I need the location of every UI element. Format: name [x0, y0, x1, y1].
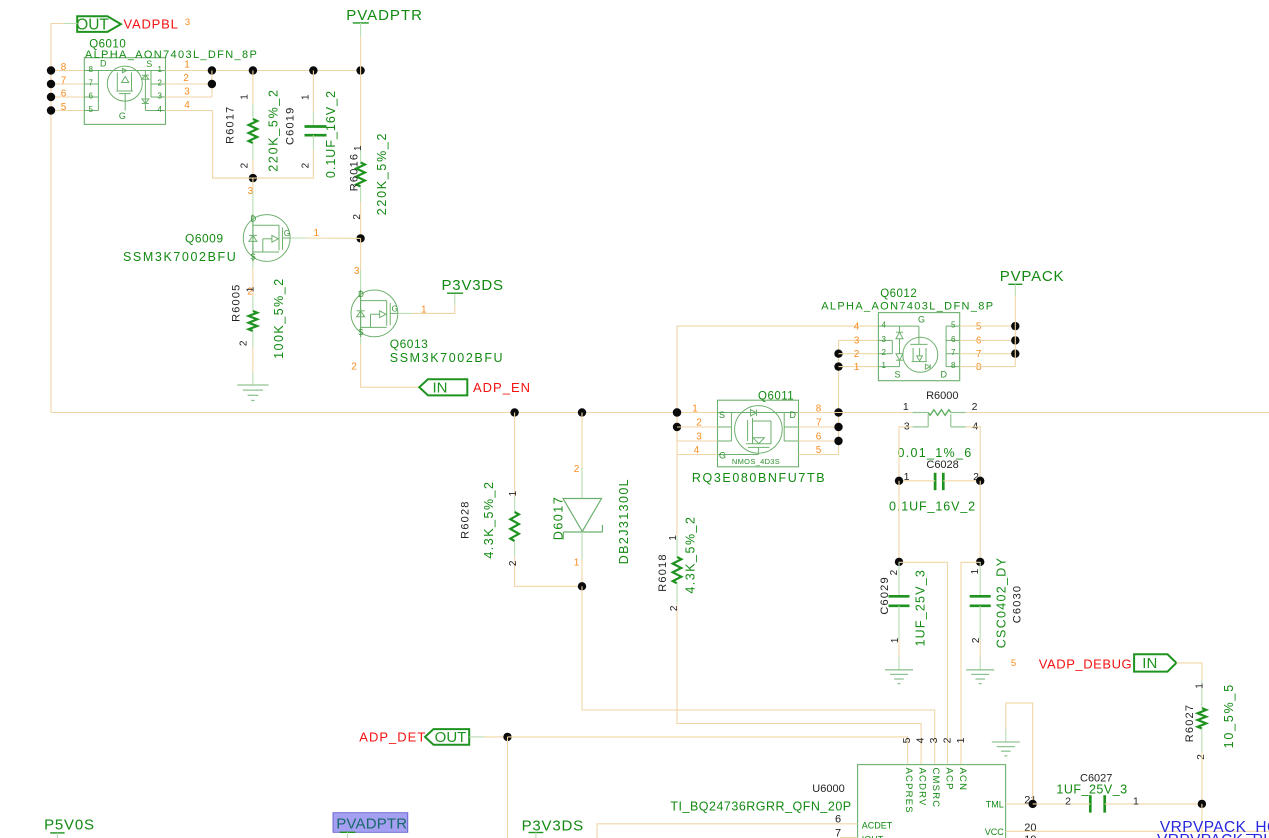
wire VCC	[1006, 830, 1269, 832]
pin 1 label D6017	[574, 557, 580, 568]
IC U6000 body	[858, 765, 1006, 838]
port IN ADP_EN	[419, 379, 467, 397]
svg-text:D: D	[941, 369, 948, 379]
svg-text:ACDRV: ACDRV	[916, 768, 927, 807]
svg-text:3: 3	[928, 737, 940, 743]
svg-text:1: 1	[854, 362, 860, 373]
wire Q6012 pin8	[960, 366, 1016, 368]
value 220K_5%_2 R6017	[267, 88, 281, 171]
wire Q6013 source to ADP_EN	[361, 337, 420, 387]
svg-text:6: 6	[951, 335, 956, 344]
capacitor C6027	[1090, 795, 1104, 812]
wire Q6010 pin7	[51, 83, 84, 85]
port IN VADP_DEBUG	[1134, 654, 1176, 672]
net VADP_DEBUG section number 5	[1011, 658, 1016, 669]
svg-text:8: 8	[976, 362, 982, 373]
svg-text:2: 2	[183, 73, 189, 84]
wire D6017 bottom	[581, 532, 583, 586]
svg-text:2: 2	[882, 348, 887, 357]
svg-text:1: 1	[882, 361, 887, 370]
svg-text:U6000: U6000	[812, 783, 844, 795]
svg-text:S: S	[719, 410, 725, 420]
resistor R6005	[249, 311, 258, 331]
part DB2J31300L D6017	[617, 478, 631, 564]
pin 4 ACDRV U6000	[914, 737, 927, 806]
pin labels C6028	[904, 471, 980, 483]
refdes R6017	[225, 105, 237, 143]
wire VADP_DEBUG to R6027	[1176, 663, 1202, 708]
svg-text:1: 1	[970, 568, 981, 574]
svg-text:4: 4	[158, 105, 163, 114]
value 220K_5%_2 R6016	[375, 132, 389, 215]
value 0.01_1%_6 R6000	[898, 446, 973, 460]
refdes R6027	[1184, 704, 1196, 742]
junction dot pin2	[208, 80, 216, 88]
wire Q6011 pin2	[677, 426, 718, 428]
transistor Q6013	[351, 290, 398, 337]
wire C6029 to ACP	[899, 562, 948, 764]
svg-text:2: 2	[352, 214, 363, 220]
svg-text:20: 20	[1024, 822, 1036, 834]
svg-text:2: 2	[669, 605, 680, 611]
refdes C6029	[879, 576, 891, 614]
svg-text:2: 2	[238, 340, 249, 346]
transistor Q6010	[84, 58, 165, 125]
svg-text:2: 2	[508, 560, 519, 566]
junction dots main rail	[510, 408, 681, 416]
junction dot R6016 bottom	[356, 234, 364, 242]
wire D6017 to CMSRC	[582, 586, 935, 764]
refdes R6000	[926, 390, 958, 402]
svg-text:Q6013: Q6013	[390, 337, 429, 351]
wire Q6010 pin5	[51, 110, 84, 112]
svg-text:3: 3	[184, 87, 190, 98]
ground near U6000	[992, 703, 1033, 804]
svg-text:7: 7	[89, 79, 94, 88]
svg-text:G: G	[918, 314, 925, 324]
pin 1 R6005	[246, 286, 257, 292]
svg-text:DB2J31300L: DB2J31300L	[617, 478, 631, 564]
svg-text:ADP_EN: ADP_EN	[473, 380, 531, 395]
pin 2 label Q6009 source	[247, 287, 253, 298]
refdes Q6010	[89, 38, 126, 50]
junction dots Q6010 left	[47, 66, 55, 114]
wire TML	[1006, 803, 1033, 805]
wire R6028 top	[514, 413, 516, 513]
svg-text:2: 2	[351, 361, 357, 372]
svg-text:IN: IN	[1142, 655, 1157, 672]
svg-text:R6018: R6018	[657, 553, 669, 591]
wire Q6012 pin4 column	[677, 326, 878, 536]
ground below R6005	[237, 373, 268, 401]
wire Q6010 pin6	[51, 96, 84, 98]
wire bus Q6012-Q6011	[838, 340, 840, 454]
refdes Q6009	[185, 232, 224, 246]
resistor R6028	[510, 512, 519, 541]
svg-text:IN: IN	[433, 380, 448, 397]
svg-text:7: 7	[61, 75, 67, 86]
wire main rail left	[51, 412, 718, 414]
wire C6019 bottom	[213, 135, 314, 178]
svg-text:1: 1	[353, 145, 364, 151]
junction dot C6029 top	[895, 558, 903, 566]
port OUT VADPBL	[76, 16, 121, 33]
power P5V0S	[44, 816, 95, 838]
svg-text:CSC0402_DY: CSC0402_DY	[995, 557, 1009, 649]
svg-text:1: 1	[184, 60, 190, 71]
svg-text:3: 3	[158, 92, 163, 101]
wire Q6011 pin4 gate	[677, 454, 718, 456]
svg-text:1: 1	[574, 557, 580, 568]
svg-text:G: G	[284, 229, 290, 238]
svg-text:1: 1	[240, 94, 251, 100]
pin 2 C6019	[300, 162, 311, 168]
svg-text:4: 4	[184, 100, 190, 111]
wire C6030 to ACN	[961, 562, 980, 764]
net VADPBL section number 3	[185, 17, 190, 28]
svg-text:G: G	[119, 111, 126, 121]
svg-text:4: 4	[972, 420, 978, 432]
power P3V3DS lower	[522, 817, 584, 838]
junction dots PVPACK bus	[1011, 322, 1019, 358]
refdes R6018	[657, 553, 669, 591]
svg-text:TI_BQ24736RGRR_QFN_20P: TI_BQ24736RGRR_QFN_20P	[670, 800, 851, 814]
pin labels Q6010 left	[61, 62, 67, 113]
wire D6017 top	[581, 413, 583, 499]
refdes Q6013	[390, 337, 429, 351]
svg-text:C6030: C6030	[1012, 585, 1024, 623]
wire R6018 top stub	[676, 536, 678, 557]
pin 2 R6017	[240, 162, 251, 168]
wire R6018 bottom to ACDRV	[677, 583, 921, 764]
pin 2 R6016	[352, 214, 363, 220]
resistor R6018	[673, 557, 682, 583]
svg-text:1UF_25V_3: 1UF_25V_3	[914, 569, 928, 647]
wire Q6011 pin3	[677, 440, 718, 442]
svg-text:2: 2	[941, 737, 953, 743]
ground below C6030	[966, 640, 994, 684]
refdes D6017	[552, 496, 566, 540]
part SSM3K7002BFU Q6009	[123, 250, 237, 264]
resistor R6000	[913, 410, 966, 427]
svg-text:5: 5	[901, 737, 913, 743]
junction dot ADP_DET	[503, 733, 511, 741]
svg-text:D: D	[358, 290, 364, 299]
diode D6017	[563, 499, 602, 540]
svg-text:ACN: ACN	[957, 768, 968, 792]
svg-text:IOUT: IOUT	[862, 834, 884, 838]
capacitor C6028	[935, 473, 943, 490]
svg-text:2: 2	[1065, 796, 1071, 808]
svg-text:3: 3	[904, 420, 910, 432]
pin labels Q6011 left	[692, 403, 702, 456]
wire C6027 to R6027	[1105, 803, 1202, 805]
pin 19 U6000	[1024, 834, 1036, 838]
wire Q6012 pin5	[960, 325, 1016, 327]
wire TML to C6027	[1033, 803, 1091, 805]
capacitor C6019	[305, 127, 327, 136]
svg-text:ACPRES: ACPRES	[903, 768, 914, 814]
wire Q6012 pin6	[960, 339, 1016, 341]
svg-text:P5V0S: P5V0S	[44, 816, 95, 833]
pin 1 label Q6013 gate	[421, 305, 427, 316]
svg-text:Q6012: Q6012	[880, 288, 917, 300]
svg-text:PVPACK: PVPACK	[1000, 268, 1065, 285]
net label ADP_EN	[473, 380, 531, 395]
pin 1 R6018	[668, 535, 679, 541]
pin 2 R6005	[238, 340, 249, 346]
pin 2 C6030	[971, 637, 982, 643]
value 1UF_25V_3 C6027	[1056, 782, 1127, 796]
svg-text:ALPHA_AON7403L_DFN_8P: ALPHA_AON7403L_DFN_8P	[85, 49, 258, 61]
net label ADP_DET	[359, 729, 426, 744]
wire Q6012 pin7	[960, 353, 1016, 355]
pin 6 ACDET U6000	[835, 813, 893, 830]
svg-text:7: 7	[976, 349, 982, 360]
junction dot C6030 top	[976, 558, 984, 566]
transistor Q6011	[718, 400, 799, 467]
svg-text:C6029: C6029	[879, 576, 891, 614]
svg-text:4: 4	[882, 321, 887, 330]
ground below C6029	[885, 640, 913, 684]
svg-text:CMSRC: CMSRC	[930, 768, 941, 809]
wire rail R6000 right	[966, 412, 1269, 414]
value 10_5%_5 R6027	[1222, 683, 1236, 748]
svg-text:1: 1	[246, 286, 257, 292]
part ALPHA_AON7403L_DFN_8P Q6010	[85, 49, 258, 61]
svg-text:S: S	[250, 253, 255, 262]
wire R6016 top	[360, 71, 362, 163]
pin labels C6027	[1065, 796, 1139, 808]
port OUT ADP_DET	[425, 729, 469, 746]
wire C6028 to C6030	[979, 481, 981, 562]
net label VADP_DEBUG	[1039, 657, 1132, 672]
svg-text:10_5%_5: 10_5%_5	[1222, 683, 1236, 748]
refdes Q6011	[758, 390, 794, 402]
pin labels Q6011 right	[816, 403, 822, 456]
net label VRPVPACK_PH	[1157, 832, 1269, 838]
svg-text:R6000: R6000	[926, 390, 958, 402]
wire top rail PVADPTR	[166, 70, 361, 72]
resistor R6027	[1198, 708, 1207, 728]
svg-text:D: D	[250, 215, 256, 224]
wire Q6012 pin1	[839, 366, 879, 368]
wire R6027 to bottom edge	[1201, 804, 1203, 838]
part TI_BQ24736RGRR_QFN_20P U6000	[670, 800, 851, 814]
svg-text:ACP: ACP	[943, 768, 954, 791]
svg-text:1: 1	[668, 535, 679, 541]
pin 1 R6028	[508, 490, 519, 496]
wire R6016 bottom	[360, 187, 362, 239]
pin 1 R6017	[240, 94, 251, 100]
pin labels R6000	[903, 401, 979, 432]
svg-text:2: 2	[972, 401, 978, 413]
svg-text:S: S	[358, 328, 363, 337]
svg-text:0.1UF_16V_2: 0.1UF_16V_2	[324, 90, 338, 178]
svg-text:220K_5%_2: 220K_5%_2	[375, 132, 389, 215]
wire ADP_DET to ACPRES	[508, 737, 908, 765]
svg-text:4.3K_5%_2: 4.3K_5%_2	[482, 481, 496, 559]
svg-text:6: 6	[976, 336, 982, 347]
svg-text:R6027: R6027	[1184, 704, 1196, 742]
svg-text:SSM3K7002BFU: SSM3K7002BFU	[123, 250, 237, 264]
part ALPHA_AON7403L_DFN_8P Q6012	[821, 300, 994, 312]
wire R6027 bottom	[1201, 729, 1203, 804]
svg-text:5: 5	[61, 102, 67, 113]
refdes C6030	[1012, 585, 1024, 623]
capacitor C6030	[970, 562, 991, 640]
svg-text:1: 1	[314, 228, 320, 239]
pin 1 R6027	[1194, 683, 1205, 689]
wire Q6010 pin8	[51, 70, 84, 72]
svg-text:4: 4	[914, 737, 926, 743]
svg-text:3: 3	[882, 335, 887, 344]
pin 3 label Q6009 drain	[248, 186, 254, 197]
pin 1 label Q6009 gate	[314, 228, 320, 239]
svg-text:ALPHA_AON7403L_DFN_8P: ALPHA_AON7403L_DFN_8P	[821, 300, 994, 312]
pin 2 label D6017	[574, 464, 580, 475]
wire Q6012 pin2	[839, 353, 879, 355]
svg-text:2: 2	[158, 79, 163, 88]
refdes C6019	[285, 107, 297, 145]
pin labels Q6012 right	[976, 321, 982, 373]
svg-text:G: G	[719, 451, 726, 461]
junction dots top rail	[208, 66, 365, 74]
svg-text:3: 3	[854, 336, 860, 347]
svg-text:1: 1	[300, 94, 311, 100]
pin 1 C6019	[300, 94, 311, 100]
svg-text:7: 7	[951, 348, 956, 357]
pin labels Q6012 left	[854, 321, 860, 373]
wire Q6013 drain	[360, 238, 362, 290]
svg-text:OUT: OUT	[435, 729, 467, 746]
junction dots bus 838	[834, 350, 842, 446]
transistor Q6012	[878, 313, 959, 381]
svg-text:VRPVPACK_PH: VRPVPACK_PH	[1157, 832, 1269, 838]
svg-text:SSM3K7002BFU: SSM3K7002BFU	[390, 351, 504, 365]
svg-text:2: 2	[300, 162, 311, 168]
svg-text:Q6009: Q6009	[185, 232, 224, 246]
value 0.1UF_16V_2 C6028	[889, 500, 976, 514]
wire R6000 sense left	[899, 427, 913, 481]
wire R6000 sense right	[966, 427, 980, 481]
wire Q6009 drain	[252, 178, 254, 214]
svg-text:5: 5	[951, 321, 956, 330]
transistor Q6009	[243, 214, 290, 261]
svg-text:VADP_DEBUG: VADP_DEBUG	[1039, 657, 1132, 672]
wire R6017 bottom	[252, 143, 254, 178]
svg-text:1: 1	[158, 65, 163, 74]
wire Q6011 pin6	[799, 440, 839, 442]
svg-text:2: 2	[574, 464, 580, 475]
svg-text:220K_5%_2: 220K_5%_2	[267, 88, 281, 171]
svg-text:2: 2	[889, 569, 900, 575]
wire C6019 top	[312, 71, 314, 127]
svg-text:5: 5	[89, 105, 94, 114]
svg-text:4.3K_5%_2: 4.3K_5%_2	[684, 516, 698, 594]
svg-text:ADP_DET: ADP_DET	[359, 729, 426, 744]
junction dot R6027 bottom	[1198, 800, 1206, 808]
wire Q6011 pin7	[799, 426, 839, 428]
net label VRPVPACK_HQ	[1160, 819, 1269, 836]
pin 3 CMSRC U6000	[928, 737, 941, 808]
net label VADPBL	[124, 16, 179, 31]
part SSM3K7002BFU Q6013	[390, 351, 504, 365]
svg-text:1: 1	[904, 471, 910, 483]
svg-text:1: 1	[1194, 683, 1205, 689]
pin 1 R6016	[353, 145, 364, 151]
wire Q6011 pin5	[799, 454, 839, 456]
power P3V3DS upper	[442, 277, 504, 294]
svg-text:7: 7	[835, 827, 841, 838]
svg-text:P3V3DS: P3V3DS	[442, 277, 504, 294]
pin 7 IOUT U6000	[835, 827, 884, 838]
wire C6028 to C6029	[898, 481, 900, 562]
pin 2 R6027	[1196, 754, 1207, 760]
svg-text:RQ3E080BNFU7TB: RQ3E080BNFU7TB	[692, 471, 826, 485]
wire R6028 bottom	[515, 541, 582, 586]
wire ADP_DET down	[507, 737, 509, 838]
wire Q6012 pin3	[839, 339, 879, 341]
svg-text:6: 6	[89, 92, 94, 101]
svg-text:D: D	[790, 410, 797, 420]
wire rail Q6011 to R6000	[799, 412, 913, 414]
part RQ3E080BNFU7TB Q6011	[692, 471, 826, 485]
svg-text:4: 4	[854, 321, 860, 332]
wire Q6009 source	[252, 262, 254, 296]
pin 2 ACP U6000	[941, 737, 954, 790]
wire VADPBL vertical	[51, 24, 77, 413]
svg-text:C6019: C6019	[285, 107, 297, 145]
value 0.1UF_16V_2 C6019	[324, 90, 338, 178]
svg-text:G: G	[392, 304, 398, 313]
power PVADPTR	[346, 7, 423, 70]
svg-text:8: 8	[89, 65, 94, 74]
junction dot col677 rail	[673, 408, 681, 431]
svg-text:6: 6	[61, 88, 67, 99]
pin 20 VCC U6000	[985, 822, 1037, 837]
wire Q6009 gate	[290, 237, 360, 239]
svg-text:5: 5	[1011, 658, 1016, 669]
junction dots C6028	[895, 477, 985, 485]
svg-text:2: 2	[240, 162, 251, 168]
refdes C6027	[1080, 772, 1112, 784]
svg-text:2: 2	[854, 349, 860, 360]
svg-text:PVADPTR: PVADPTR	[336, 816, 407, 833]
highlighted power PVADPTR	[333, 813, 408, 838]
pin 2 label Q6013 source	[351, 361, 357, 372]
svg-text:VADPBL: VADPBL	[124, 16, 179, 31]
refdes Q6012	[880, 288, 917, 300]
svg-text:1: 1	[421, 305, 427, 316]
value CSC0402_DY C6030	[995, 557, 1009, 649]
svg-text:R6005: R6005	[231, 283, 243, 321]
svg-text:1: 1	[955, 737, 967, 743]
wire C6028 left	[899, 480, 935, 482]
pin 5 ACPRES U6000	[901, 737, 914, 813]
svg-text:1: 1	[903, 401, 909, 413]
refdes U6000	[812, 783, 844, 795]
resistor R6017	[249, 119, 258, 143]
pin 1 C6029	[890, 637, 901, 643]
svg-text:8: 8	[61, 62, 67, 73]
svg-text:8: 8	[951, 361, 956, 370]
wire R6005 bottom	[252, 331, 254, 373]
value 100K_5%_2 R6005	[272, 277, 286, 359]
svg-text:TML: TML	[986, 799, 1004, 809]
wire IOUT stub	[840, 837, 858, 838]
wire R6005 top stub	[252, 296, 254, 311]
